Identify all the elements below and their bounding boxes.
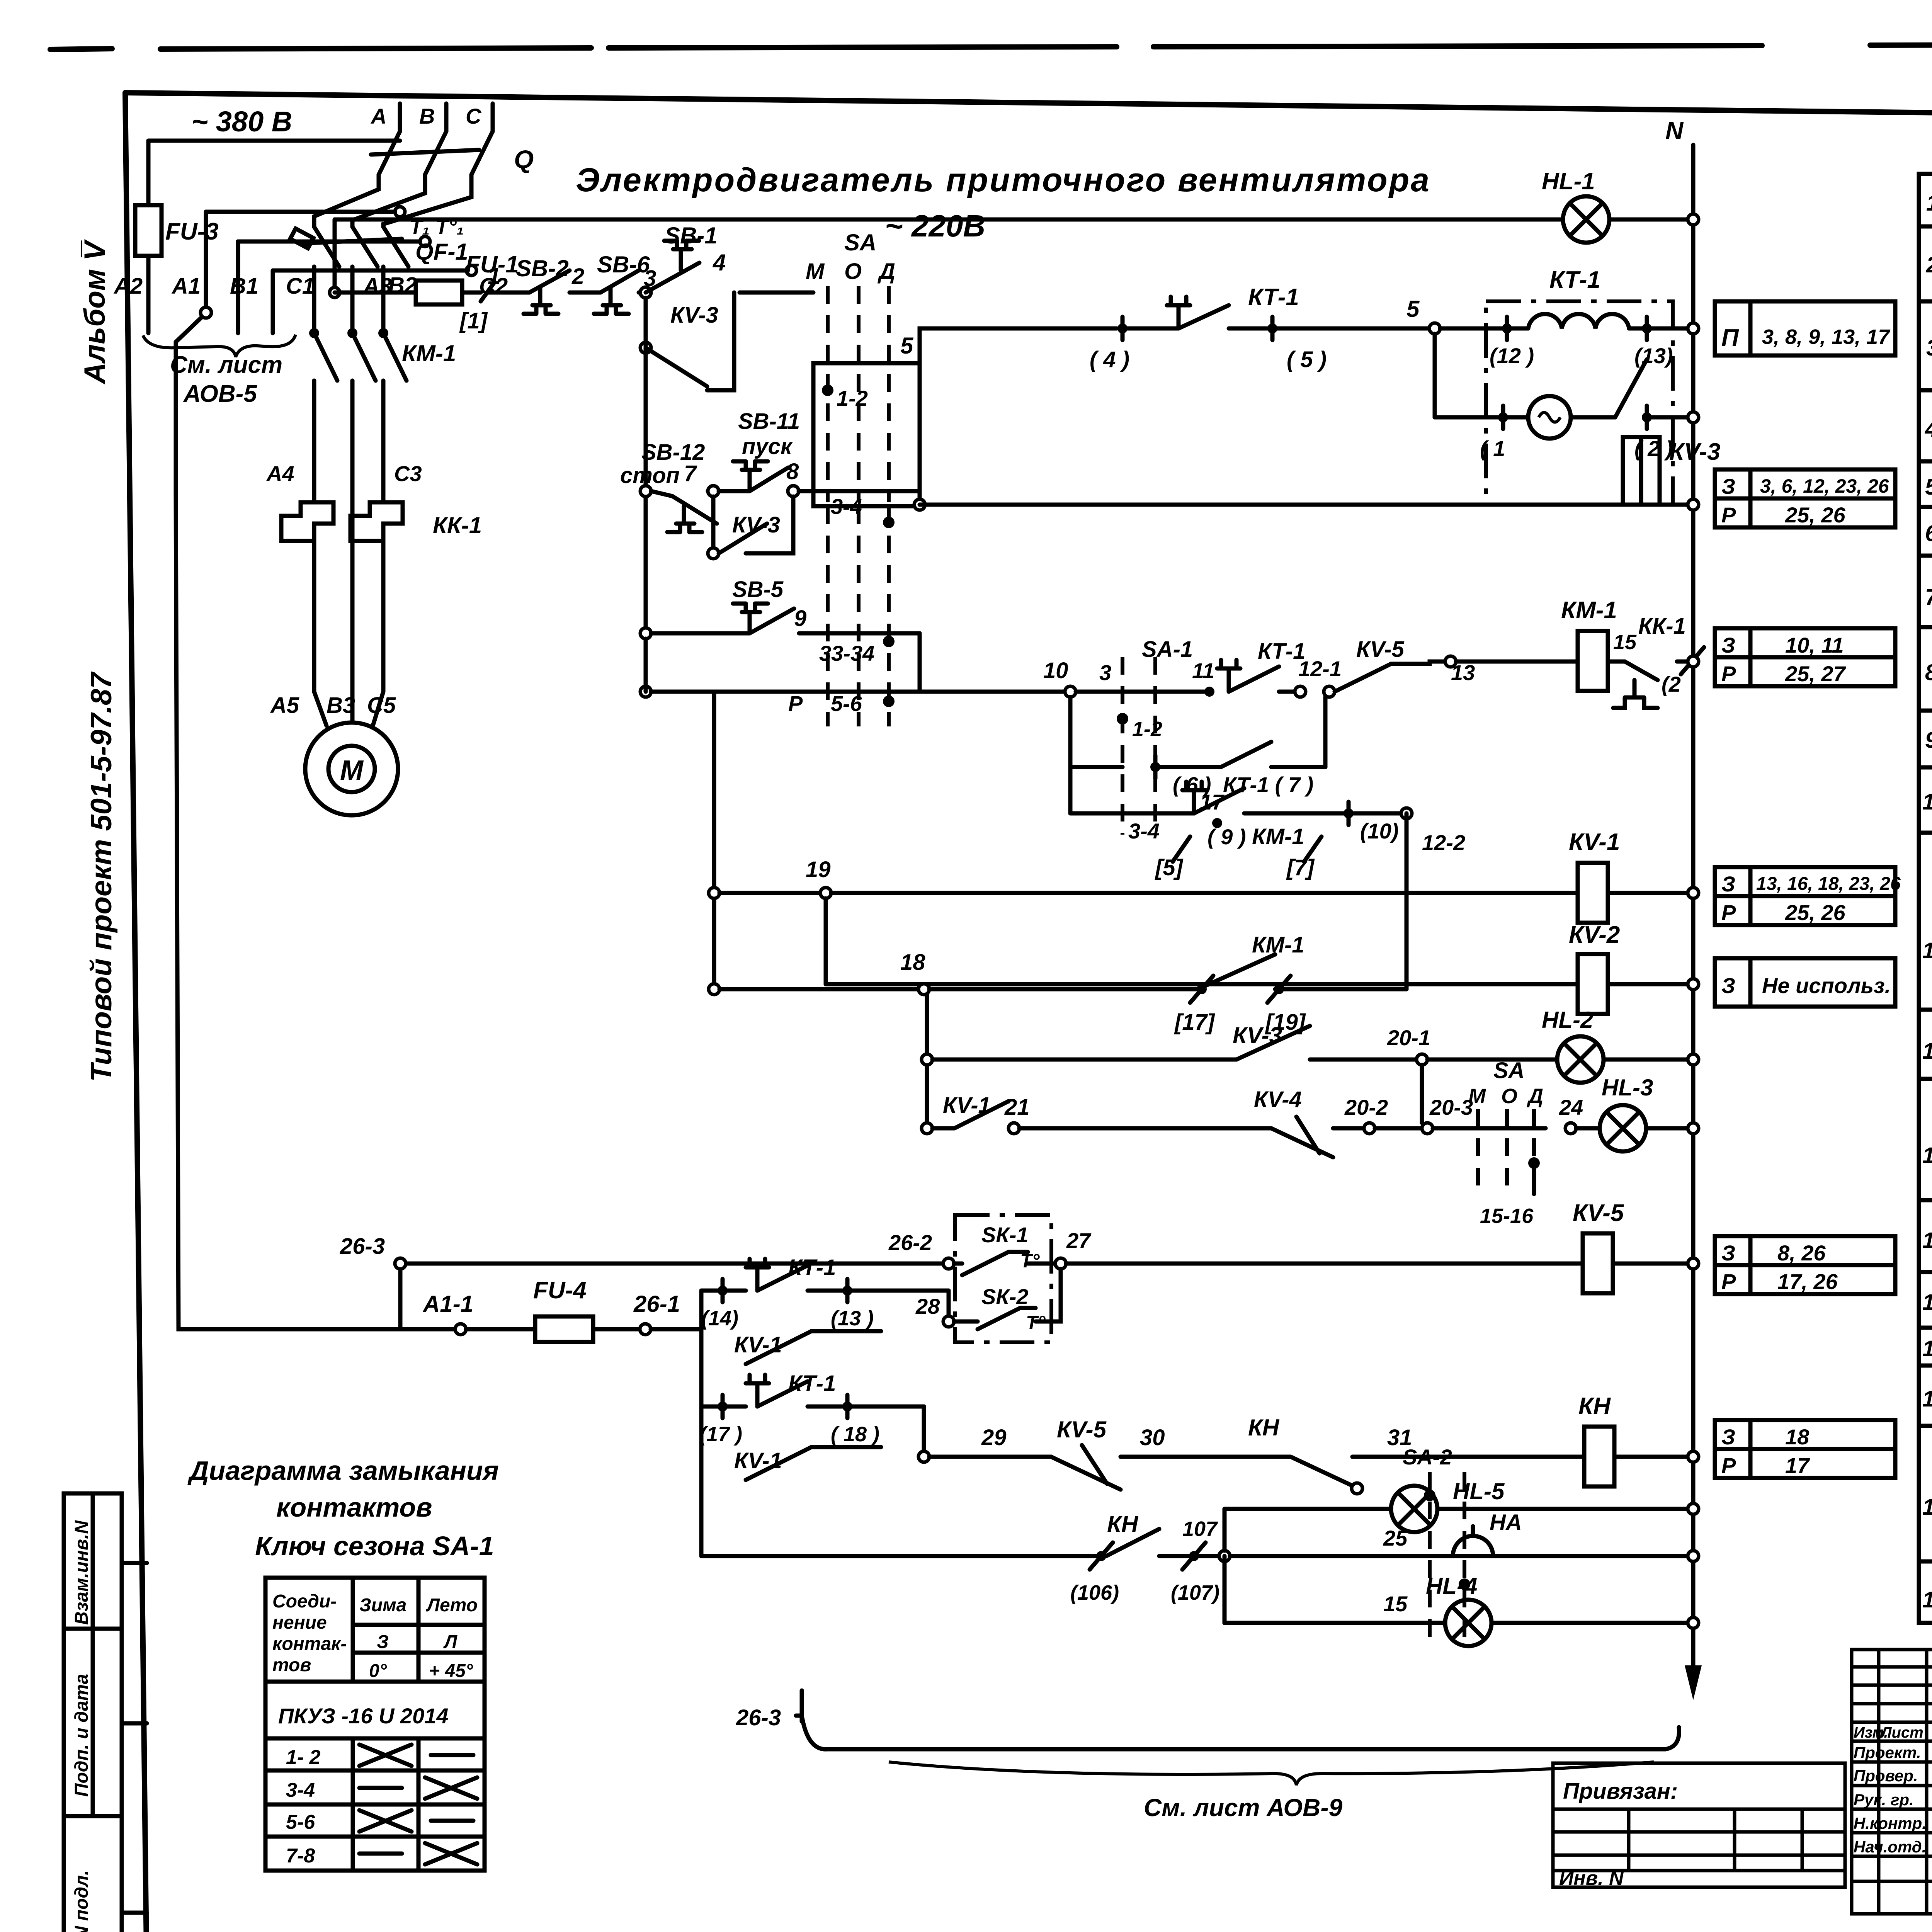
wire to KV-5 coil: [1066, 1262, 1583, 1266]
svg-text:SB-1: SB-1: [665, 223, 718, 248]
wire rung 8 to SA columns: [799, 489, 920, 493]
node N x KT-1 coil: [1688, 323, 1699, 334]
svg-text:П: П: [1721, 325, 1739, 351]
vertical 12-2: [1405, 813, 1409, 989]
season table header texts: [272, 1591, 478, 1728]
brace See sheet AOB-5: [143, 335, 296, 357]
stamp strip label Инв.N подл.: [71, 1870, 92, 1932]
svg-text:15-16: 15-16: [1480, 1204, 1534, 1228]
svg-text:( 1: ( 1: [1480, 436, 1505, 461]
svg-text:З: З: [1721, 1241, 1735, 1265]
svg-text:КV-1: КV-1: [734, 1448, 782, 1473]
svg-text:28: 28: [915, 1294, 940, 1318]
node 12-1: [1295, 686, 1306, 697]
svg-text:[5]: [5]: [1155, 855, 1184, 880]
svg-text:26-3: 26-3: [736, 1705, 781, 1730]
rung 26-3 SK-1 KV-5: [340, 1230, 954, 1329]
svg-text:( 9 ): ( 9 ): [1207, 825, 1246, 849]
svg-text:О: О: [1501, 1085, 1517, 1108]
rail node x P rung: [640, 686, 651, 697]
svg-text:А3: А3: [362, 274, 392, 299]
svg-text:19: 19: [1922, 1587, 1932, 1612]
svg-text:4: 4: [1925, 417, 1932, 442]
svg-text:С: С: [466, 104, 482, 128]
labels А4 С3: [266, 461, 422, 486]
rows 5-7 block: [1919, 461, 1932, 627]
season key table: [265, 1578, 485, 1871]
button SB-2: [516, 255, 600, 314]
rail segment lower: [712, 692, 716, 989]
svg-text:SА: SА: [1493, 1058, 1525, 1083]
rung P 5-6: [651, 691, 1065, 716]
svg-text:[1]: [1]: [459, 308, 488, 333]
rung KV-3 coil line: [914, 499, 1693, 510]
svg-text:М: М: [806, 259, 825, 284]
svg-text:15: 15: [1922, 1290, 1932, 1315]
svg-text:Диаграмма замыкания: Диаграмма замыкания: [187, 1456, 499, 1486]
svg-text:16: 16: [1922, 1336, 1932, 1361]
node N x HL-4: [1688, 1617, 1699, 1628]
svg-text:SB-6: SB-6: [597, 252, 650, 277]
svg-text:10: 10: [1922, 789, 1932, 815]
rung FU-1 control feed: [335, 251, 529, 333]
svg-text:+ 45°: + 45°: [429, 1661, 473, 1681]
svg-text:[7]: [7]: [1286, 855, 1315, 880]
contact KV-3 self-hold: [708, 497, 793, 559]
svg-text:9: 9: [1925, 728, 1932, 753]
svg-text:Р: Р: [1721, 503, 1736, 527]
svg-text:29: 29: [981, 1425, 1007, 1450]
svg-text:N: N: [1665, 117, 1684, 145]
svg-text:Д: Д: [877, 259, 895, 284]
svg-text:13, 16, 18, 23, 26: 13, 16, 18, 23, 26: [1756, 874, 1901, 894]
svg-text:Н.контр.: Н.контр.: [1854, 1814, 1927, 1832]
main schematic title: [576, 162, 1431, 243]
marking box З не использ: [1715, 958, 1895, 1007]
marking box З 13,16,18,23,26 / Р 25,26: [1715, 867, 1901, 925]
svg-text:Лето: Лето: [426, 1595, 478, 1616]
label Т1 Т°1 QF-1: [410, 215, 468, 265]
svg-text:(14): (14): [701, 1307, 738, 1330]
svg-text:А2: А2: [113, 274, 143, 299]
node N x KH: [1688, 1451, 1699, 1462]
coil KH: [1578, 1393, 1693, 1486]
lamp HL-1: [1542, 168, 1609, 243]
svg-text:Инв.N подл.: Инв.N подл.: [71, 1870, 92, 1932]
svg-text:М: М: [1468, 1085, 1486, 1108]
wire 380V feed: [148, 139, 400, 143]
node circle A1 tap: [395, 207, 405, 217]
svg-text:А4: А4: [266, 461, 294, 486]
svg-text:КV-1: КV-1: [1569, 829, 1620, 855]
brace see sheet AOB-9: [889, 1762, 1654, 1785]
row 2 cell: [1919, 233, 1932, 303]
svg-text:КН: КН: [1248, 1415, 1280, 1440]
svg-text:0°: 0°: [369, 1661, 387, 1681]
svg-text:КК-1: КК-1: [1638, 614, 1686, 639]
fuse FU-4: [466, 1277, 640, 1342]
motor feed wires: [314, 553, 383, 726]
svg-text:10: 10: [1043, 658, 1068, 683]
contact 33-34: [819, 506, 920, 726]
svg-text:12-2: 12-2: [1422, 830, 1465, 855]
coil KV-5: [1573, 1200, 1693, 1293]
bottom collector wire 26-3: [736, 1690, 1679, 1749]
svg-text:FU-3: FU-3: [165, 218, 219, 245]
rail continues down: [644, 639, 648, 692]
svg-text:27: 27: [1066, 1228, 1092, 1253]
svg-text:КТ-1: КТ-1: [788, 1255, 836, 1280]
svg-text:КV-2: КV-2: [1569, 922, 1620, 948]
thermal relay KK-1 heaters: [281, 502, 482, 553]
disconnector Q: [371, 131, 534, 175]
lamp HL-5: [1225, 1478, 1693, 1551]
svg-text:8, 26: 8, 26: [1777, 1241, 1826, 1265]
svg-text:Инв. N: Инв. N: [1559, 1867, 1624, 1889]
node circle B1 tap: [420, 236, 430, 247]
svg-text:7: 7: [684, 461, 697, 486]
svg-text:1: 1: [1926, 190, 1932, 216]
svg-text:30: 30: [1140, 1425, 1165, 1450]
selector SA-2 columns: [1403, 1445, 1470, 1646]
svg-text:10, 11: 10, 11: [1785, 633, 1844, 657]
svg-text:7: 7: [1925, 585, 1932, 610]
svg-text:2: 2: [571, 264, 584, 289]
node N x HL-5: [1688, 1503, 1699, 1514]
svg-text:А1-1: А1-1: [422, 1291, 473, 1317]
svg-text:Р: Р: [788, 691, 803, 716]
svg-text:КТ-1: КТ-1: [788, 1371, 836, 1396]
svg-text:Электродвигатель приточного: Электродвигатель приточного вентилятора: [576, 162, 1431, 199]
svg-text:17: 17: [1922, 1386, 1932, 1412]
wire rung into SA box: [740, 291, 813, 295]
svg-text:SА: SА: [844, 230, 876, 255]
motor M: [305, 723, 398, 815]
svg-text:(106): (106): [1070, 1581, 1119, 1604]
svg-text:КV-5: КV-5: [1356, 637, 1405, 662]
privyazan table: [1553, 1763, 1845, 1889]
contact KT-1 timing: [1090, 284, 1430, 372]
node N x HL-1: [1688, 214, 1699, 225]
node N x KV-2: [1688, 979, 1699, 990]
node 20-1: [1417, 1054, 1427, 1065]
svg-text:18: 18: [1785, 1425, 1810, 1449]
svg-text:Не использ.: Не использ.: [1762, 973, 1891, 998]
coil KV-2: [1569, 922, 1693, 1014]
node N x KV-5: [1688, 1258, 1699, 1269]
row 11 block: [1919, 881, 1932, 1010]
selector SA box: [806, 230, 920, 506]
button SB-12 stop: [620, 440, 717, 532]
node N x KV-3: [1688, 499, 1699, 510]
svg-text:5-6: 5-6: [286, 1811, 315, 1833]
svg-text:(12 ): (12 ): [1490, 344, 1534, 368]
svg-text:пуск: пуск: [742, 434, 793, 459]
labels А5 В3 С5: [270, 693, 396, 718]
svg-text:НL-4: НL-4: [1426, 1573, 1477, 1599]
rows 12-13 block: [1919, 1010, 1932, 1200]
svg-text:20-1: 20-1: [1387, 1026, 1430, 1050]
title block header texts: [1854, 1724, 1932, 1856]
svg-text:FU-4: FU-4: [533, 1277, 587, 1304]
svg-text:( 18 ): ( 18 ): [831, 1423, 879, 1446]
svg-text:25, 26: 25, 26: [1785, 503, 1846, 527]
svg-text:КТ-1: КТ-1: [1549, 267, 1600, 293]
svg-text:О: О: [844, 259, 862, 284]
svg-text:КН: КН: [1578, 1393, 1611, 1420]
coil KV-3: [1623, 437, 1720, 505]
svg-text:(17 ): (17 ): [699, 1423, 742, 1446]
svg-text:12: 12: [1922, 1039, 1932, 1064]
svg-text:SА-1: SА-1: [1142, 637, 1193, 662]
svg-text:Т°: Т°: [1020, 1250, 1040, 1272]
svg-text:З: З: [1721, 1425, 1735, 1449]
svg-text:19: 19: [806, 857, 831, 882]
svg-text:(107): (107): [1171, 1581, 1219, 1604]
svg-text:[17]: [17]: [1174, 1010, 1215, 1035]
svg-text:26-3: 26-3: [340, 1234, 385, 1259]
svg-text:(13 ): (13 ): [831, 1307, 874, 1330]
svg-text:АОВ-5: АОВ-5: [183, 381, 257, 407]
svg-text:26-2: 26-2: [888, 1230, 932, 1255]
lamp HL-4: [1225, 1556, 1693, 1646]
row 1 cell: [1919, 172, 1932, 228]
svg-text:контак-: контак-: [272, 1634, 347, 1654]
svg-text:Нач.отд.: Нач.отд.: [1854, 1838, 1926, 1856]
marks [5] [7]: [1155, 837, 1321, 880]
node N x KT-1 motor row: [1688, 412, 1699, 423]
svg-text:КН: КН: [1107, 1511, 1139, 1537]
N bus rail: [1665, 117, 1702, 1700]
KT-1 coil winding row: [1440, 314, 1693, 368]
svg-text:НL-5: НL-5: [1453, 1478, 1505, 1504]
svg-text:КV-5: КV-5: [1057, 1417, 1107, 1442]
rung KV-3 contact to HL-2: [922, 1022, 1417, 1065]
wires QF-1 to KM-1: [314, 267, 383, 328]
svg-text:нение: нение: [272, 1612, 327, 1633]
svg-text:12-1: 12-1: [1298, 656, 1342, 681]
svg-text:А5: А5: [270, 693, 299, 718]
svg-text:КV-1: КV-1: [734, 1332, 782, 1357]
svg-text:Д: Д: [1527, 1085, 1543, 1108]
svg-text:3, 8, 9, 13, 17: 3, 8, 9, 13, 17: [1762, 325, 1891, 349]
breaker QF-1 contacts: [290, 227, 408, 267]
svg-text:107: 107: [1182, 1517, 1218, 1541]
svg-text:НL-2: НL-2: [1542, 1007, 1593, 1033]
svg-text:18: 18: [900, 950, 925, 975]
node 5 at KT-1 box: [1429, 323, 1440, 334]
marking box З 18 / Р 17: [1715, 1420, 1895, 1478]
marking box П 3,8,9,13,17: [1715, 301, 1895, 355]
svg-text:1-2: 1-2: [837, 386, 868, 410]
node 3: [640, 287, 651, 298]
rows 8-10 block: [1919, 660, 1932, 833]
svg-text:Зима: Зима: [359, 1595, 406, 1616]
phase input ticks А В С: [370, 104, 493, 131]
svg-text:Типовой проект 501-5-97.87: Типовой проект 501-5-97.87: [85, 671, 118, 1082]
node N x HL-3: [1688, 1123, 1699, 1134]
node 12-2: [1401, 808, 1412, 819]
node 28 wire to SK-2: [915, 1269, 1061, 1333]
svg-text:11: 11: [1192, 658, 1214, 683]
svg-text:См. лист АОВ-9: См. лист АОВ-9: [1144, 1794, 1343, 1821]
svg-text:13: 13: [1922, 1143, 1932, 1168]
svg-text:1- 2: 1- 2: [286, 1746, 321, 1769]
svg-text:КМ-1: КМ-1: [402, 340, 456, 366]
svg-text:З: З: [1721, 872, 1735, 896]
contactor KM-1 main contacts: [309, 328, 456, 381]
heading Диаграмма замыкания контактов: [187, 1456, 499, 1522]
svg-text:КV-3: КV-3: [1669, 439, 1720, 465]
svg-text:( 4 ): ( 4 ): [1090, 347, 1129, 372]
svg-text:В1: В1: [230, 274, 259, 299]
svg-text:15: 15: [1613, 631, 1637, 654]
selector SA-1 columns: [1099, 637, 1193, 835]
svg-text:Л: Л: [443, 1632, 457, 1652]
svg-text:КМ-1: КМ-1: [1561, 597, 1617, 624]
wire 26-1 to branch point: [651, 1327, 701, 1332]
sensor SK box: [954, 1215, 1055, 1342]
node rail x stop rung: [640, 486, 651, 497]
svg-text:Q: Q: [514, 145, 534, 173]
svg-text:КМ-1: КМ-1: [1252, 824, 1304, 849]
left margin vertical label: Типовой проект 501-5-97.87: [85, 671, 118, 1082]
svg-text:SК-2: SК-2: [981, 1284, 1029, 1309]
button SB-11 start: [719, 409, 800, 491]
svg-text:В3: В3: [327, 693, 355, 718]
wire tap В1: [238, 241, 420, 333]
svg-text:5: 5: [900, 333, 914, 359]
svg-text:КТ-1: КТ-1: [1248, 284, 1299, 311]
rung KV-1 KV-4 HL-3: [922, 1065, 1546, 1157]
svg-text:З: З: [1721, 973, 1735, 998]
node N x bell rung: [1688, 1551, 1699, 1561]
bell HA on KH rung: [1383, 1510, 1522, 1556]
svg-text:КМ-1: КМ-1: [1252, 932, 1304, 957]
rail node x SB-5: [640, 628, 651, 639]
svg-text:См. лист: См. лист: [170, 352, 282, 378]
rung 29 KV-5 30 KH 31: [918, 1415, 1584, 1494]
svg-text:25: 25: [1383, 1526, 1408, 1550]
svg-text:8: 8: [786, 459, 799, 484]
svg-text:9: 9: [794, 606, 806, 631]
svg-text:Проект.: Проект.: [1854, 1743, 1921, 1762]
rail from node 3 down: [644, 298, 648, 628]
svg-text:25, 26: 25, 26: [1785, 900, 1846, 925]
title block main frame: [1852, 1650, 1932, 1914]
marking box З 3,6,12,23,26 / Р 25,26: [1715, 469, 1895, 527]
rung KH self hold: [701, 1406, 1693, 1604]
season table contact rows: [286, 1746, 321, 1867]
node N x KV-1: [1688, 888, 1699, 898]
KT-1 motor row: [1435, 334, 1693, 461]
svg-text:8: 8: [1925, 660, 1932, 685]
node N x HL-2: [1688, 1054, 1699, 1065]
marking box З 10,11 / Р 25,27: [1715, 628, 1895, 686]
svg-text:ПКУЗ -16 U 2014: ПКУЗ -16 U 2014: [278, 1704, 449, 1728]
svg-text:5: 5: [1406, 296, 1420, 322]
svg-text:3: 3: [1099, 660, 1111, 685]
svg-text:5: 5: [1925, 474, 1932, 500]
rung 18 KM-1 aux: [709, 932, 1406, 1035]
selector SA columns mid: [1468, 1058, 1543, 1228]
lamp HL-2: [1427, 1007, 1693, 1083]
lamp HL-3: [1559, 1075, 1693, 1151]
svg-text:~ 220В: ~ 220В: [885, 209, 985, 243]
sheet top broken border line: [50, 44, 1932, 49]
svg-text:КV-3: КV-3: [670, 303, 718, 328]
svg-text:А1: А1: [171, 274, 201, 299]
svg-text:QF-1: QF-1: [415, 239, 468, 265]
svg-text:6: 6: [1925, 521, 1932, 546]
svg-text:НА: НА: [1490, 1510, 1522, 1535]
contact KV-5 NC: [1324, 637, 1578, 697]
svg-text:КV-3: КV-3: [1233, 1022, 1282, 1048]
svg-text:17, 26: 17, 26: [1777, 1269, 1838, 1294]
svg-text:17: 17: [1785, 1453, 1810, 1478]
svg-text:17: 17: [1200, 790, 1225, 814]
node circle C1 tap: [466, 265, 476, 276]
svg-text:Альбом V̅: Альбом V̅: [78, 239, 111, 384]
wires KM-1 to KK-1: [314, 381, 383, 502]
contact KT-1 on rung 11: [1076, 639, 1305, 697]
svg-text:Взам.инв.N: Взам.инв.N: [71, 1520, 92, 1625]
svg-text:~ 380 В: ~ 380 В: [191, 105, 292, 138]
svg-text:26-1: 26-1: [633, 1291, 680, 1317]
svg-text:НL-3: НL-3: [1602, 1075, 1653, 1100]
svg-text:24: 24: [1559, 1095, 1583, 1119]
relay KT-1 dash-dot box: [1486, 267, 1673, 505]
svg-text:З: З: [1721, 633, 1735, 657]
button SB-5: [651, 577, 828, 633]
svg-text:Ключ сезона SА-1: Ключ сезона SА-1: [255, 1531, 494, 1561]
vertical feed to KV-3 rung: [925, 995, 929, 1128]
svg-text:Лист: Лист: [1880, 1724, 1923, 1741]
svg-text:7-8: 7-8: [286, 1845, 315, 1867]
marking box З 8,26 / Р 17,26: [1715, 1236, 1895, 1294]
rung HL-1 lamp line: [330, 219, 1693, 298]
branch verticals from rung 10: [1070, 697, 1325, 813]
svg-text:Подп. и дата: Подп. и дата: [71, 1674, 92, 1797]
left margin stamp strip: [64, 1493, 147, 1932]
svg-text:Рук. гр.: Рук. гр.: [1854, 1791, 1914, 1809]
wire rung 9 continues: [918, 633, 922, 692]
rows 14-16 block: [1919, 1228, 1932, 1366]
branch rung 3-4 (9) KM-1 (10): [1070, 782, 1406, 849]
svg-text:15: 15: [1383, 1592, 1408, 1616]
branch KT-1 (14) KV-1 (13): [701, 1255, 949, 1364]
svg-text:SК-1: SК-1: [981, 1223, 1029, 1247]
wire tap А1: [176, 212, 395, 342]
svg-text:Соеди-: Соеди-: [272, 1591, 337, 1612]
contact KV-3 bypass: [640, 293, 734, 390]
svg-text:2: 2: [1926, 252, 1932, 277]
svg-text:С3: С3: [394, 461, 422, 486]
node 19 rung KV-1: [709, 857, 1578, 898]
svg-text:В: В: [419, 104, 435, 128]
svg-text:Р: Р: [1721, 1453, 1736, 1478]
fuse FU-3: [135, 141, 219, 333]
stamp strip label Взам.инв.N: [71, 1520, 92, 1625]
button SB-6: [594, 252, 656, 314]
svg-text:(10): (10): [1360, 819, 1399, 843]
svg-text:(13): (13): [1634, 344, 1673, 368]
stamp strip label Подп. и дата: [71, 1674, 92, 1797]
node 8: [788, 486, 799, 497]
node 26-1: [640, 1324, 651, 1335]
svg-text:С1: С1: [286, 274, 315, 299]
long wire to FU-4: [176, 342, 455, 1329]
